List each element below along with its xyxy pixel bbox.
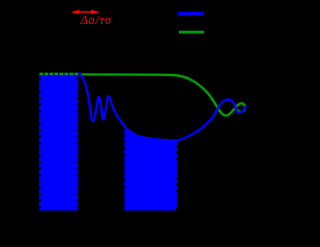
svg-text:Δa/τσ: Δa/τσ	[80, 13, 112, 27]
